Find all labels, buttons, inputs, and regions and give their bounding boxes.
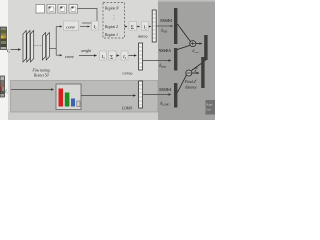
svg-text:Fine tuning: Fine tuning (32, 69, 50, 73)
svg-text:LOMO: LOMO (121, 107, 133, 111)
svg-text:weight: weight (81, 49, 92, 53)
svg-text:Region 2: Region 2 (104, 25, 118, 29)
svg-text:over: over (195, 51, 199, 54)
svg-text:s: s (7, 92, 8, 95)
svg-text:Final d: Final d (184, 80, 196, 84)
svg-text:Region 1: Region 1 (104, 33, 118, 37)
svg-text:conv: conv (65, 54, 75, 59)
svg-text:⋮: ⋮ (112, 15, 117, 21)
svg-text:deep: deep (161, 66, 167, 69)
svg-text:loss: loss (207, 109, 211, 112)
svg-text:Region N: Region N (104, 7, 119, 11)
svg-text:conv: conv (66, 24, 76, 29)
svg-text:distance: distance (185, 85, 197, 89)
svg-text:BRISQ: BRISQ (138, 35, 148, 39)
svg-text:CNNIQ: CNNIQ (122, 72, 133, 76)
svg-text:Σ: Σ (110, 54, 113, 60)
svg-text:NSSΦA: NSSΦA (159, 18, 173, 23)
svg-text:Σ: Σ (131, 25, 134, 31)
svg-text:Resnet 50: Resnet 50 (33, 74, 49, 78)
svg-text:NSSΦA: NSSΦA (158, 87, 172, 92)
svg-text:NSS: NSS (162, 31, 168, 34)
svg-text:LOMO: LOMO (161, 104, 169, 107)
svg-text:NSSΦA: NSSΦA (158, 48, 172, 53)
svg-text:Rank: Rank (207, 104, 214, 107)
